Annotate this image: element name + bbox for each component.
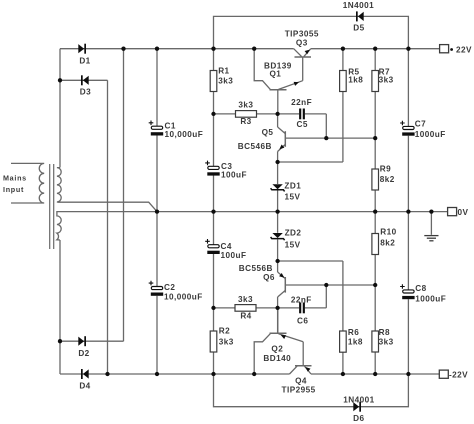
svg-text:R4: R4: [240, 311, 251, 320]
svg-text:8k2: 8k2: [380, 175, 395, 184]
svg-text:10,000uF: 10,000uF: [165, 130, 204, 139]
svg-text:C7: C7: [415, 119, 426, 128]
svg-text:10,000uF: 10,000uF: [164, 292, 203, 301]
svg-text:3k3: 3k3: [218, 77, 233, 86]
svg-text:TIP2955: TIP2955: [282, 386, 316, 395]
svg-text:C4: C4: [221, 242, 232, 251]
svg-text:3k3: 3k3: [238, 295, 253, 304]
svg-text:Q4: Q4: [295, 376, 307, 385]
svg-text:R8: R8: [379, 328, 390, 337]
svg-text:22V: 22V: [456, 45, 472, 54]
svg-text:Mains: Mains: [3, 174, 27, 183]
svg-text:BC546B: BC546B: [238, 142, 272, 151]
svg-text:R9: R9: [380, 165, 391, 174]
svg-text:Q2: Q2: [271, 344, 283, 353]
svg-text:1N4001: 1N4001: [343, 1, 374, 10]
svg-text:100uF: 100uF: [221, 251, 247, 260]
svg-text:BD140: BD140: [263, 354, 291, 363]
svg-text:C6: C6: [297, 317, 308, 326]
svg-text:D1: D1: [79, 56, 90, 65]
svg-text:22nF: 22nF: [291, 98, 312, 107]
svg-text:8k2: 8k2: [380, 238, 395, 247]
svg-text:1k8: 1k8: [348, 337, 363, 346]
svg-text:C5: C5: [297, 120, 308, 129]
svg-text:Q1: Q1: [269, 69, 281, 78]
svg-text:Q5: Q5: [262, 128, 274, 137]
svg-text:R2: R2: [219, 327, 230, 336]
svg-text:D6: D6: [353, 414, 364, 423]
svg-text:D3: D3: [80, 88, 91, 97]
svg-text:1N4001: 1N4001: [343, 395, 374, 404]
svg-text:C2: C2: [164, 283, 175, 292]
svg-text:R6: R6: [348, 328, 359, 337]
svg-text:-22V: -22V: [449, 370, 468, 379]
svg-text:0V: 0V: [458, 208, 469, 217]
svg-text:Q3: Q3: [296, 39, 308, 48]
svg-text:3k3: 3k3: [238, 101, 253, 110]
svg-text:R1: R1: [218, 66, 229, 75]
svg-text:D2: D2: [78, 349, 89, 358]
svg-text:3k3: 3k3: [219, 337, 234, 346]
svg-text:3k3: 3k3: [379, 76, 394, 85]
svg-text:1000uF: 1000uF: [415, 295, 446, 304]
svg-text:22nF: 22nF: [291, 296, 312, 305]
svg-text:3k3: 3k3: [379, 337, 394, 346]
svg-text:D5: D5: [353, 24, 364, 33]
svg-text:BC556B: BC556B: [239, 264, 273, 273]
svg-text:TIP3055: TIP3055: [285, 29, 319, 38]
svg-text:1k8: 1k8: [348, 76, 363, 85]
svg-text:C8: C8: [415, 284, 426, 293]
svg-text:1000uF: 1000uF: [415, 130, 446, 139]
svg-text:15V: 15V: [285, 240, 301, 249]
svg-text:ZD2: ZD2: [285, 228, 302, 237]
svg-text:D4: D4: [79, 382, 90, 391]
svg-text:100uF: 100uF: [221, 171, 247, 180]
svg-text:Input: Input: [3, 185, 24, 194]
svg-text:15V: 15V: [285, 193, 301, 202]
svg-text:R10: R10: [380, 228, 396, 237]
svg-text:R3: R3: [240, 117, 251, 126]
svg-text:Q6: Q6: [263, 273, 275, 282]
svg-text:ZD1: ZD1: [284, 182, 301, 191]
